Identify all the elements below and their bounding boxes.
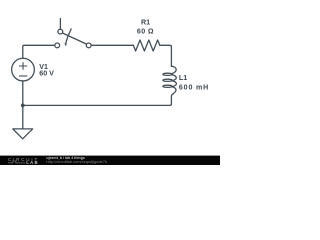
switch SW: toggle arrow arc [66,29,71,43]
svg-text:L1: L1 [179,74,187,82]
labels [39,19,208,92]
wire: V1 top to top-left corner to switch left terminal [23,45,54,58]
svg-text:http://circuitlab.com/csqsdjlg: http://circuitlab.com/csqsdjlgode7h [46,160,107,164]
switch SW: top throw terminal [58,29,63,34]
wire: resistor to top-right corner, down to inductor [160,45,172,66]
svg-text:600 mH: 600 mH [179,83,208,91]
switch SW: left terminal [55,43,60,48]
inductor L1: exit curl [171,87,176,104]
svg-text:R1: R1 [141,19,150,27]
switch SW: top stub wire [59,19,61,29]
inductor L1: loop 3 [163,85,173,87]
voltage source V1 [12,58,35,81]
wire: bottom rail from inductor to junction [23,104,172,106]
inductor L1: loop 2 [163,79,173,81]
switch SW: lever [63,33,86,44]
wire: switch to resistor [91,44,133,46]
resistor R1 zigzag [133,40,159,51]
switch arrowhead [65,43,68,46]
junction node [21,104,25,108]
inductor L1: loop 1 [163,73,173,75]
switch SW: right terminal [86,43,91,48]
svg-text:60 Ω: 60 Ω [137,27,154,35]
inductor L1: arc 2-3 [173,81,177,87]
wire: V1 bottom to junction [22,81,24,105]
ground symbol triangle [13,129,33,139]
svg-text:60 V: 60 V [39,70,54,78]
inductor L1: arc 1-2 [172,75,176,81]
CircuitLab logo waveform [8,161,25,163]
wire: junction down to ground [22,105,24,128]
svg-text:LAB: LAB [26,160,37,165]
inductor L1: entry hook [171,66,176,73]
footer bar [0,156,220,165]
